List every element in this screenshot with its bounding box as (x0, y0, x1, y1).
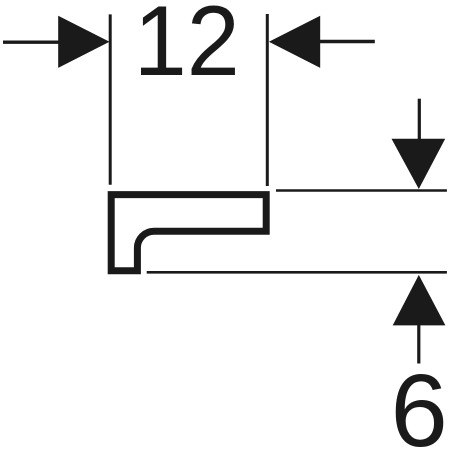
right arrowhead (12) (269, 16, 320, 68)
svg-text:12: 12 (134, 0, 240, 96)
down arrowhead (6) (392, 139, 446, 189)
down arrow tail (6) (418, 99, 421, 140)
profile outline (trim cross-section) (111, 195, 266, 271)
bottom reference line (floor surface) (147, 271, 447, 274)
left arrowhead (12) (58, 16, 109, 68)
svg-text:6: 6 (391, 353, 448, 450)
left extension line (12) (109, 14, 112, 184)
up arrow tail (6) (417, 325, 420, 364)
dimension line left tail (12) (3, 41, 62, 44)
dimension line right tail (12) (319, 40, 375, 44)
right extension line (12) (266, 14, 269, 186)
top reference line (tile surface) (276, 189, 447, 192)
up arrowhead (6) (393, 275, 446, 326)
